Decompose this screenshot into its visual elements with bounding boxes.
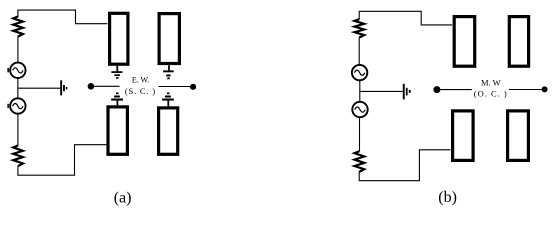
wire R1 to V1 (b) — [358, 38, 360, 65]
svg-text:E. W.: E. W. — [132, 76, 150, 85]
ground G1 rotated (b) — [403, 84, 411, 100]
wire from left node (a) — [91, 85, 120, 87]
electrode plate P4 bottom-right (b) — [508, 111, 529, 160]
svg-text:(S. C. ): (S. C. ) — [125, 86, 156, 96]
wire junction to ground G1 (a) — [18, 87, 60, 89]
electrode plate P3 bottom-left (a) — [108, 107, 127, 154]
AC source V1 (b) — [352, 65, 367, 80]
resistor R2 (b) — [355, 151, 365, 172]
wire to right node (b) — [509, 89, 545, 91]
wire bottom from R2 to plate P3 (b) — [359, 150, 450, 181]
wire from left node (b) — [437, 89, 472, 91]
wire to right node (a) — [159, 86, 194, 88]
resistor R1 (b) — [355, 19, 365, 37]
wire V2 to R2 (b) — [359, 117, 361, 151]
ground G1 rotated (a) — [60, 80, 67, 95]
resistor R2 (a) — [13, 146, 23, 167]
AC source V1 (a) — [7, 63, 25, 78]
electrode plate P2 top-right (a) — [159, 14, 179, 64]
ground below P2 (a) — [163, 65, 174, 79]
AC source V2 (b) — [352, 102, 367, 117]
wire from R1 top to plate P1 (b) — [359, 11, 452, 25]
wire junction to ground G1 (b) — [360, 90, 403, 92]
node dot right (b) — [542, 86, 548, 92]
ground above P3 inverted (a) — [111, 93, 123, 106]
svg-text:M. W: M. W — [481, 78, 501, 88]
node dot left (b) — [433, 86, 440, 93]
AC source V2 (a) — [7, 98, 25, 113]
wire from R1 top to plate P1 (a) — [18, 10, 108, 24]
wire bottom from R2 to plate P3 (a) — [18, 145, 107, 176]
wire V1 to V2 (a) — [17, 78, 19, 98]
ground below P1 (a) — [111, 66, 122, 79]
svg-text:(a): (a) — [114, 189, 132, 206]
svg-text:(O. C. ): (O. C. ) — [474, 88, 508, 98]
ground above P4 inverted (a) — [162, 93, 174, 107]
svg-text:(b): (b) — [438, 189, 457, 206]
wire R1 to V1 (a) — [17, 37, 19, 63]
node dot left (a) — [88, 83, 95, 90]
wire V1 to V2 (b) — [359, 81, 361, 102]
electrode plate P2 top-right (b) — [509, 17, 528, 67]
electrode plate P4 bottom-right (a) — [159, 108, 178, 154]
node dot right (a) — [190, 84, 196, 90]
electrode plate P1 top-left (b) — [454, 17, 475, 67]
electrode plate P3 bottom-left (b) — [453, 111, 474, 160]
electrode plate P1 top-left (a) — [110, 13, 128, 64]
wire V2 to R2 (a) — [17, 114, 19, 146]
resistor R1 (a) — [13, 17, 23, 37]
